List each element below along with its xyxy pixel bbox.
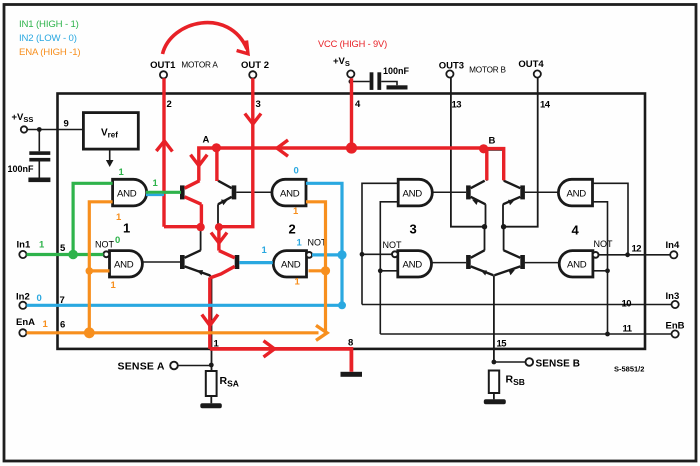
node VS	[346, 142, 357, 153]
svg-text:IN2 (LOW - 0): IN2 (LOW - 0)	[19, 33, 77, 44]
svg-text:0: 0	[37, 293, 42, 304]
svg-text:AND: AND	[567, 188, 587, 199]
capacitor C2 100nF	[370, 72, 374, 90]
svg-text:AND: AND	[567, 260, 587, 271]
svg-text:OUT1: OUT1	[150, 60, 176, 71]
wire sense down	[208, 278, 211, 349]
wire B staple black under red	[487, 150, 504, 181]
svg-text:AND: AND	[281, 260, 301, 271]
node In2 riser bottom	[338, 301, 346, 309]
resistor RSB	[489, 371, 499, 394]
wire OUT3 line	[451, 78, 485, 227]
wire motor arc	[163, 23, 248, 54]
and-gate G3B	[398, 251, 432, 277]
node OUT2 red	[215, 223, 223, 231]
NOT bubble G2B	[306, 252, 312, 258]
svg-text:EnA: EnA	[16, 317, 35, 328]
svg-text:AND: AND	[280, 188, 300, 199]
wire G2A output	[236, 191, 271, 193]
svg-text:NOT: NOT	[594, 239, 614, 249]
node In2 riser top	[337, 250, 346, 259]
and-gate G4B	[559, 251, 593, 277]
svg-text:IN1 (HIGH - 1): IN1 (HIGH - 1)	[19, 19, 79, 30]
and-gate G1B	[110, 251, 143, 277]
svg-text:6: 6	[60, 320, 65, 331]
wire to G1B	[89, 269, 109, 272]
arrow down	[191, 155, 208, 166]
svg-text:In1: In1	[17, 240, 31, 251]
wire G3 enable	[380, 202, 398, 334]
svg-text:1: 1	[119, 167, 125, 178]
svg-text:13: 13	[452, 100, 462, 111]
wire rail right down	[217, 227, 220, 251]
wire G3B output	[432, 262, 467, 264]
svg-text:1: 1	[116, 212, 122, 223]
rail sense B	[493, 275, 495, 362]
transistor Q5	[466, 185, 471, 199]
node EnA G2B	[321, 266, 330, 275]
svg-text:1: 1	[39, 240, 45, 251]
node B	[479, 144, 488, 153]
svg-text:In3: In3	[666, 291, 680, 302]
rail A right black	[217, 204, 219, 223]
and-gate G2A	[272, 179, 306, 206]
wire VSS to Vref	[27, 129, 83, 131]
svg-text:11: 11	[623, 324, 633, 335]
IC package box	[58, 94, 646, 349]
rail A left black	[200, 227, 202, 250]
svg-text:4: 4	[355, 99, 361, 110]
node In1	[68, 250, 78, 260]
svg-text:3: 3	[256, 99, 261, 110]
svg-text:AND: AND	[403, 260, 423, 271]
svg-text:In4: In4	[666, 240, 680, 251]
svg-text:3: 3	[410, 222, 417, 237]
svg-text:1: 1	[295, 277, 301, 288]
svg-text:9: 9	[64, 119, 69, 130]
svg-text:0: 0	[294, 166, 299, 177]
NOT bubble G3B	[392, 251, 398, 257]
NOT bubble G1B	[103, 251, 109, 257]
wire EnA	[27, 331, 319, 334]
arrow Vref output	[109, 149, 111, 160]
svg-text:OUT 2: OUT 2	[241, 60, 269, 71]
arrow up	[156, 141, 172, 152]
capacitor C1 100nF	[38, 130, 40, 152]
pin SENSE B	[526, 358, 534, 366]
svg-text:12: 12	[632, 244, 642, 255]
wire EnA riser block1	[89, 202, 112, 333]
svg-text:1: 1	[43, 319, 49, 330]
svg-text:B: B	[489, 136, 496, 147]
wire bottom to pin8	[210, 349, 352, 372]
svg-text:NOT: NOT	[383, 240, 403, 250]
wire to NOT G2B	[312, 253, 342, 256]
svg-text:SENSE B: SENSE B	[536, 359, 581, 370]
svg-text:1: 1	[262, 245, 268, 256]
transistor Q7	[466, 255, 471, 269]
arrow down	[202, 315, 218, 326]
and-gate G1A	[113, 179, 147, 206]
wire In2 loop up	[306, 183, 342, 305]
arrow left	[277, 140, 288, 156]
wire EnA riser block2	[306, 202, 326, 333]
svg-text:15: 15	[497, 339, 508, 350]
and-gate G3A	[398, 179, 432, 206]
wire B staple	[485, 149, 504, 181]
block Vref	[83, 113, 138, 150]
svg-text:AND: AND	[117, 188, 137, 199]
blue stub under green	[146, 194, 164, 196]
svg-text:NOT: NOT	[95, 240, 115, 250]
wire A to right rail	[215, 148, 218, 181]
wire A to left rail	[199, 148, 217, 181]
node EnA G1B	[86, 267, 94, 275]
transistor Q4 base	[235, 255, 240, 269]
wire G4A output	[525, 191, 559, 193]
wire G4B output	[525, 262, 559, 264]
svg-text:ENA (HIGH -1): ENA (HIGH -1)	[19, 47, 80, 58]
svg-text:A: A	[203, 135, 210, 146]
wire OUT2 down	[219, 78, 253, 226]
svg-text:10: 10	[622, 299, 632, 310]
ground	[484, 399, 506, 404]
wire G4A input loop	[593, 183, 629, 255]
svg-text:AND: AND	[114, 260, 134, 271]
node OUT1 red	[196, 223, 204, 231]
arrow right	[316, 325, 327, 340]
arrowhead of arc	[237, 41, 248, 54]
node G3 not	[360, 252, 365, 257]
wire In1 loop up	[73, 183, 113, 254]
node OUT4 junction	[501, 224, 506, 229]
transistor Q8	[520, 255, 525, 269]
node A	[212, 143, 221, 152]
wire G4 enable	[593, 202, 608, 334]
svg-text:8: 8	[348, 338, 353, 349]
wire to capacitor	[351, 81, 370, 83]
transistor Q2	[232, 185, 237, 199]
svg-text:1: 1	[111, 280, 117, 291]
wire G3A output	[432, 191, 466, 193]
svg-text:S-5851/2: S-5851/2	[614, 365, 644, 374]
wire In2	[27, 304, 343, 307]
wire G2B output	[239, 261, 272, 264]
svg-text:0: 0	[115, 235, 120, 246]
arrow down	[211, 233, 227, 244]
wire A-VS-B horizontal	[216, 146, 483, 149]
transistor Q1 arms red	[185, 181, 202, 227]
wire OUT1 joint	[164, 225, 201, 228]
wire to G2B	[309, 269, 326, 272]
rail B left	[485, 204, 486, 250]
svg-text:1: 1	[123, 221, 130, 236]
svg-text:5: 5	[60, 243, 66, 254]
wire OUT4 line	[504, 78, 538, 227]
wire G3A input loop	[362, 183, 398, 304]
arrow right	[264, 341, 275, 357]
ground	[28, 178, 50, 183]
svg-text:1: 1	[153, 178, 159, 189]
node EnA main	[84, 327, 95, 338]
ground pin8	[341, 372, 363, 377]
and-gate G2B	[273, 251, 306, 277]
NOT bubble G4B	[593, 252, 599, 258]
transistor Q3	[180, 255, 185, 269]
svg-text:SENSE A: SENSE A	[118, 361, 165, 373]
svg-text:MOTOR B: MOTOR B	[469, 66, 506, 75]
svg-text:14: 14	[540, 100, 551, 111]
arrow down	[245, 114, 261, 125]
ground	[387, 85, 408, 89]
node VSS tap	[37, 127, 42, 132]
ground	[200, 403, 222, 408]
transistor Q4 arms red	[210, 251, 235, 278]
svg-text:MOTOR A: MOTOR A	[181, 61, 218, 70]
svg-text:1: 1	[297, 238, 303, 249]
wire G1B output	[142, 261, 181, 263]
node VS tap	[349, 79, 354, 84]
rail sense A black	[211, 277, 213, 371]
and-gate G4A	[558, 179, 592, 206]
wire cap to ground	[381, 82, 397, 86]
wire VS down	[350, 78, 353, 148]
wire OUT1 up	[162, 78, 165, 226]
svg-text:4: 4	[572, 223, 580, 238]
node OUT3 junction	[482, 224, 487, 229]
svg-text:OUT4: OUT4	[518, 59, 544, 70]
svg-text:2: 2	[167, 99, 172, 110]
svg-text:VCC (HIGH - 9V): VCC (HIGH - 9V)	[318, 39, 387, 49]
transistor Q1 base	[180, 185, 185, 199]
svg-text:AND: AND	[403, 188, 423, 199]
resistor RSA	[206, 371, 217, 396]
rail B right	[502, 204, 505, 250]
transistor Q6	[520, 185, 525, 199]
wire In1	[27, 253, 104, 256]
svg-text:100nF: 100nF	[383, 66, 410, 76]
svg-text:1: 1	[293, 206, 299, 217]
svg-text:2: 2	[289, 222, 296, 237]
wire G1A output	[146, 191, 181, 194]
svg-text:100nF: 100nF	[8, 164, 35, 174]
